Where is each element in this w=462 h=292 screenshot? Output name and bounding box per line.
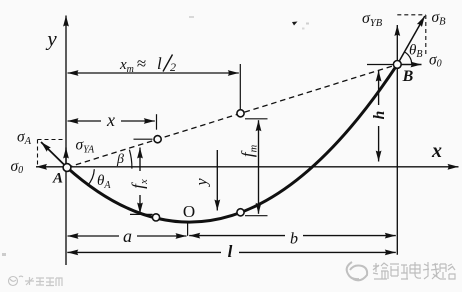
svg-text:θA: θA (97, 173, 111, 191)
svg-text:σYB: σYB (362, 10, 383, 29)
svg-text:σ0: σ0 (429, 52, 442, 70)
svg-text:b: b (290, 231, 298, 248)
svg-text:2: 2 (170, 60, 176, 74)
svg-text:xm≈: xm≈ (119, 54, 146, 75)
svg-text:l: l (228, 242, 233, 261)
svg-text:θB: θB (409, 43, 422, 61)
svg-text:β: β (116, 152, 124, 167)
svg-text:A: A (52, 171, 63, 187)
svg-text:σB: σB (432, 9, 447, 28)
svg-text:l: l (157, 54, 162, 73)
svg-text:fm: fm (238, 144, 260, 157)
svg-text:O: O (183, 202, 195, 221)
svg-text:y: y (45, 27, 57, 51)
svg-text:a: a (123, 226, 132, 246)
svg-text:h: h (371, 111, 388, 120)
svg-text:y: y (194, 178, 211, 188)
svg-text:fx: fx (129, 179, 151, 189)
svg-text:σ0: σ0 (11, 158, 24, 176)
svg-text:x: x (431, 140, 442, 162)
svg-text:σA: σA (17, 129, 32, 148)
svg-text:σYA: σYA (76, 137, 96, 156)
svg-text:B: B (402, 68, 414, 85)
svg-text:x: x (106, 110, 115, 130)
